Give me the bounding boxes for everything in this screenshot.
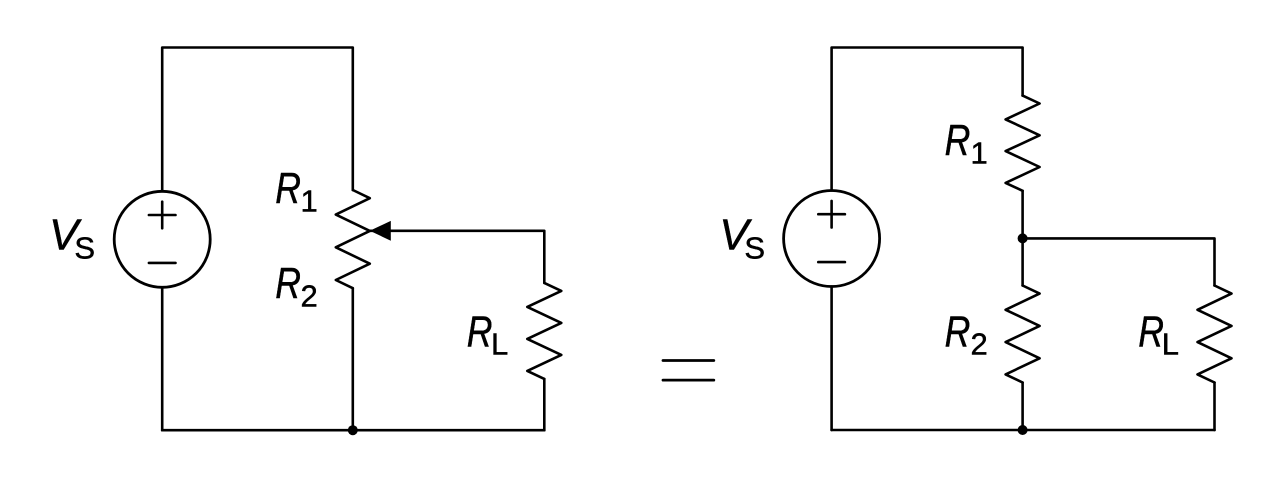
junction node right circuit bottom: [1018, 425, 1028, 435]
potentiometer R1/R2 zigzag: [336, 190, 370, 288]
resistor R2 right zigzag: [1006, 286, 1040, 383]
resistor RL left zigzag: [527, 283, 561, 379]
wire right circuit left rail bottom: [830, 287, 833, 431]
voltage source VS right circle: [784, 191, 880, 287]
wire left circuit top rail: [162, 48, 353, 192]
wire left circuit bottom rail: [162, 429, 544, 432]
wire R1 to node: [1021, 191, 1024, 286]
equals sign: [663, 361, 714, 381]
resistor RL right zigzag: [1198, 286, 1232, 383]
wire right circuit top rail: [832, 48, 1023, 191]
svg-text:1: 1: [971, 136, 988, 171]
svg-text:L: L: [491, 327, 508, 362]
junction node right circuit mid: [1018, 233, 1028, 243]
wire R2 bottom: [1021, 383, 1024, 431]
svg-text:L: L: [1162, 327, 1179, 362]
junction node left circuit: [348, 425, 358, 435]
svg-text:R: R: [945, 308, 971, 356]
wire wiper to RL: [370, 231, 544, 283]
plus sign inside left source: [149, 202, 176, 229]
wire node to RL right: [1023, 238, 1215, 285]
wiper arrow head: [370, 221, 391, 241]
svg-text:S: S: [744, 230, 765, 265]
svg-text:R: R: [275, 164, 301, 212]
wire pot bottom to rail: [351, 288, 354, 430]
resistor R1 right zigzag: [1006, 96, 1040, 191]
minus sign inside left source: [149, 262, 176, 265]
svg-text:S: S: [74, 230, 95, 265]
svg-text:2: 2: [971, 327, 988, 362]
wire right circuit bottom rail: [832, 429, 1215, 432]
wire left circuit left rail bottom: [161, 287, 164, 430]
wire RL right bottom: [1213, 383, 1216, 431]
svg-text:R: R: [945, 117, 971, 165]
plus sign inside right source: [818, 201, 845, 228]
svg-text:2: 2: [301, 279, 318, 314]
svg-text:R: R: [275, 259, 301, 307]
svg-text:R: R: [467, 308, 493, 356]
wire RL left bottom: [543, 379, 546, 430]
voltage source VS left circle: [114, 191, 210, 287]
svg-text:R: R: [1138, 308, 1164, 356]
minus sign inside right source: [818, 261, 845, 264]
svg-text:1: 1: [301, 184, 318, 219]
